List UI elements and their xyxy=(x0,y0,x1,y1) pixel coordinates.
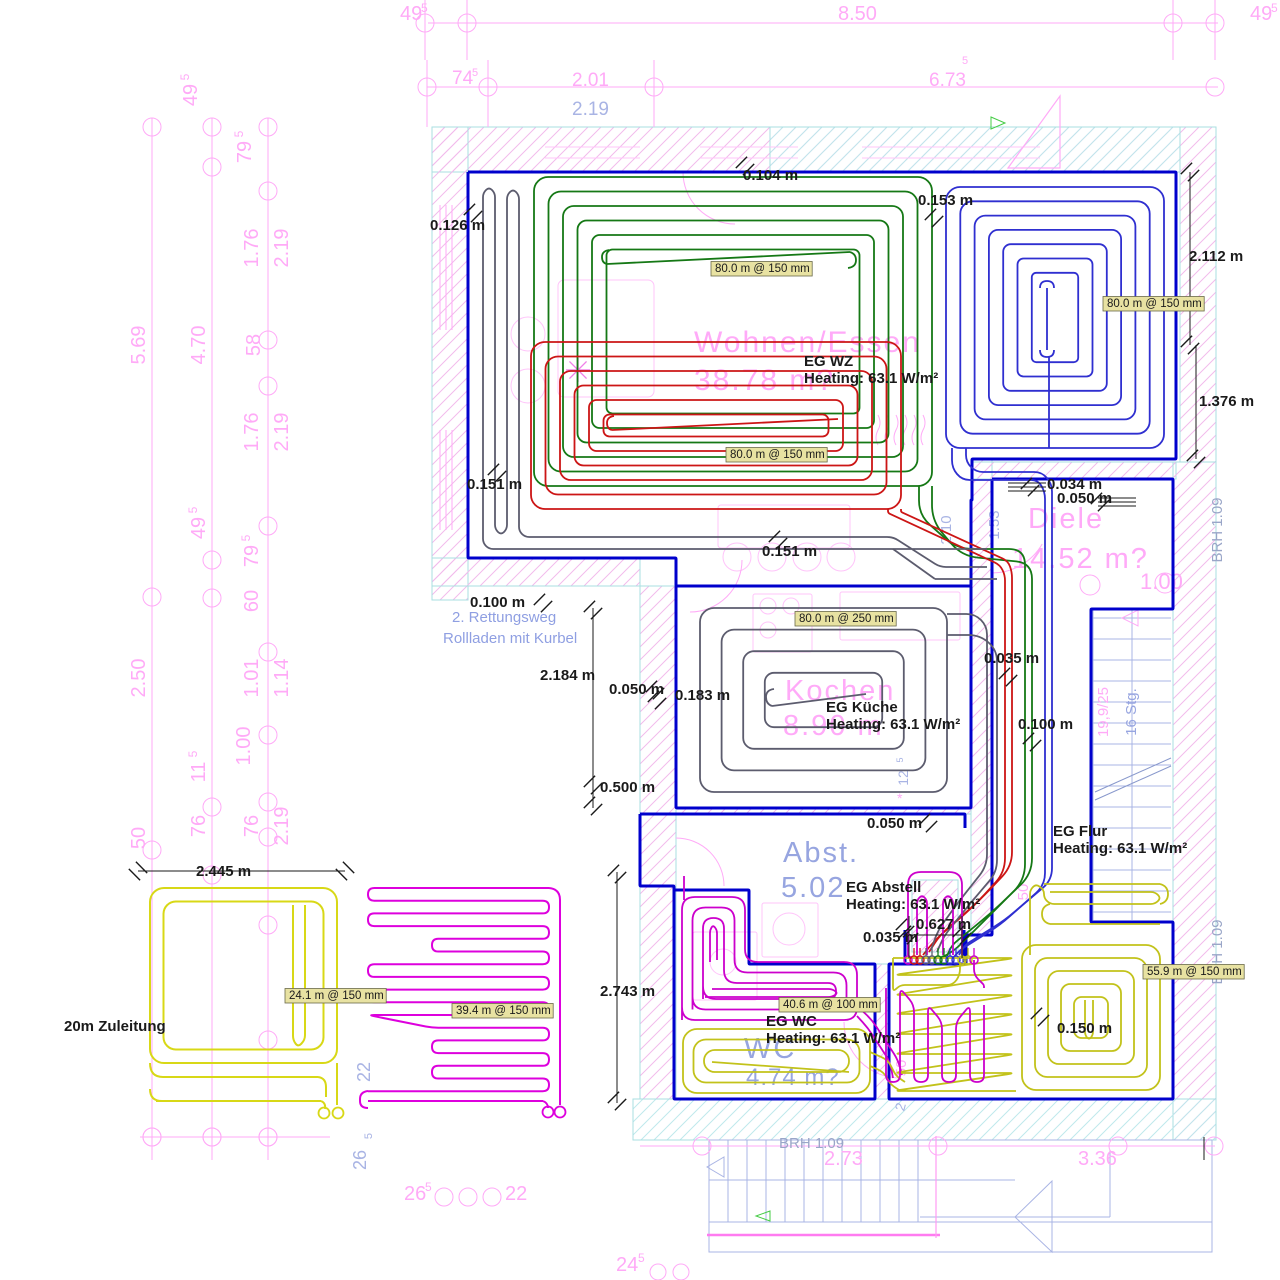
svg-text:0.500 m: 0.500 m xyxy=(600,779,655,796)
svg-text:0.100 m: 0.100 m xyxy=(470,594,525,611)
svg-text:5.02: 5.02 xyxy=(781,872,845,904)
svg-text:1.01: 1.01 xyxy=(241,659,263,698)
svg-text:26: 26 xyxy=(350,1150,370,1170)
svg-text:0.151 m: 0.151 m xyxy=(762,543,817,560)
svg-text:5: 5 xyxy=(421,1,428,15)
svg-text:49: 49 xyxy=(1250,3,1272,25)
svg-text:EG Flur: EG Flur xyxy=(1053,823,1107,840)
svg-text:80.0 m @ 250 mm: 80.0 m @ 250 mm xyxy=(799,613,894,625)
svg-text:39.4 m @ 150 mm: 39.4 m @ 150 mm xyxy=(456,1005,551,1017)
svg-text:0.126 m: 0.126 m xyxy=(430,217,485,234)
svg-text:58: 58 xyxy=(243,334,265,356)
svg-text:1.14: 1.14 xyxy=(271,659,293,698)
svg-text:80.0 m @ 150 mm: 80.0 m @ 150 mm xyxy=(1107,298,1202,310)
svg-text:49: 49 xyxy=(180,84,202,106)
svg-text:79: 79 xyxy=(241,545,263,567)
svg-text:1.376 m: 1.376 m xyxy=(1199,393,1254,410)
svg-text:22: 22 xyxy=(505,1183,527,1205)
svg-text:5: 5 xyxy=(232,130,246,137)
svg-text:14.52 m?: 14.52 m? xyxy=(1012,543,1149,575)
svg-text:1.00: 1.00 xyxy=(1140,569,1183,594)
svg-text:EG Abstell: EG Abstell xyxy=(846,879,921,896)
svg-text:2.19: 2.19 xyxy=(271,807,293,846)
svg-text:0.035 m: 0.035 m xyxy=(863,929,918,946)
svg-text:40.6 m @ 100 mm: 40.6 m @ 100 mm xyxy=(783,999,878,1011)
svg-text:0.150 m: 0.150 m xyxy=(1057,1020,1112,1037)
svg-text:60: 60 xyxy=(241,590,263,612)
svg-text:5: 5 xyxy=(638,1251,645,1265)
svg-text:0.151 m: 0.151 m xyxy=(467,476,522,493)
svg-text:2.19: 2.19 xyxy=(271,229,293,268)
svg-text:0.183 m: 0.183 m xyxy=(675,687,730,704)
svg-text:Heating: 63.1 W/m²: Heating: 63.1 W/m² xyxy=(766,1030,900,1047)
svg-text:8.50: 8.50 xyxy=(838,3,877,25)
svg-text:EG WC: EG WC xyxy=(766,1013,817,1030)
svg-text:19,9/25: 19,9/25 xyxy=(1095,687,1112,737)
svg-text:Abst.: Abst. xyxy=(783,837,859,869)
svg-text:24: 24 xyxy=(616,1254,638,1276)
svg-text:2.19: 2.19 xyxy=(271,413,293,452)
svg-text:2.50: 2.50 xyxy=(128,659,150,698)
svg-text:74: 74 xyxy=(452,68,474,89)
svg-text:1.00: 1.00 xyxy=(233,727,255,766)
svg-text:24.1 m @ 150 mm: 24.1 m @ 150 mm xyxy=(289,990,384,1002)
svg-text:EG Küche: EG Küche xyxy=(826,699,898,716)
svg-text:5: 5 xyxy=(962,55,968,67)
svg-text:5: 5 xyxy=(363,1133,375,1139)
svg-text:2.112 m: 2.112 m xyxy=(1189,248,1243,265)
svg-text:5: 5 xyxy=(186,506,200,513)
svg-text:Heating: 63.1 W/m²: Heating: 63.1 W/m² xyxy=(826,716,960,733)
svg-text:5: 5 xyxy=(239,534,253,541)
svg-text:79: 79 xyxy=(234,141,256,163)
svg-text:3.36: 3.36 xyxy=(1078,1148,1117,1170)
svg-text:80.0 m @ 150 mm: 80.0 m @ 150 mm xyxy=(715,263,810,275)
svg-text:11: 11 xyxy=(188,762,210,783)
svg-text:0.100 m: 0.100 m xyxy=(1018,716,1073,733)
svg-text:0.104 m: 0.104 m xyxy=(743,167,798,184)
svg-text:20m Zuleitung: 20m Zuleitung xyxy=(64,1018,166,1035)
svg-text:Diele: Diele xyxy=(1028,503,1104,535)
svg-text:0.153 m: 0.153 m xyxy=(918,192,973,209)
svg-text:0.050 m: 0.050 m xyxy=(867,815,922,832)
svg-text:2.743 m: 2.743 m xyxy=(600,983,655,1000)
svg-text:5: 5 xyxy=(425,1180,432,1194)
svg-text:50: 50 xyxy=(128,827,150,849)
svg-text:0.035 m: 0.035 m xyxy=(984,650,1039,667)
svg-text:Rollladen mit Kurbel: Rollladen mit Kurbel xyxy=(443,630,577,647)
svg-text:1.76: 1.76 xyxy=(241,413,263,452)
svg-text:5: 5 xyxy=(1271,1,1278,15)
svg-text:2.184 m: 2.184 m xyxy=(540,667,595,684)
svg-text:26: 26 xyxy=(404,1183,426,1205)
svg-text:6.73: 6.73 xyxy=(929,70,966,91)
svg-text:5: 5 xyxy=(178,73,192,80)
svg-text:4.70: 4.70 xyxy=(188,326,210,365)
svg-text:49: 49 xyxy=(400,3,422,25)
svg-text:80.0 m @ 150 mm: 80.0 m @ 150 mm xyxy=(730,449,825,461)
svg-text:Heating: 63.1 W/m²: Heating: 63.1 W/m² xyxy=(1053,840,1187,857)
svg-text:Heating: 63.1 W/m²: Heating: 63.1 W/m² xyxy=(804,370,938,387)
svg-text:49: 49 xyxy=(188,517,210,539)
svg-text:16 Stg.: 16 Stg. xyxy=(1123,688,1140,736)
svg-text:12: 12 xyxy=(895,770,911,786)
svg-text:76: 76 xyxy=(188,815,210,837)
svg-text:5: 5 xyxy=(186,750,200,757)
svg-text:1.76: 1.76 xyxy=(241,229,263,268)
svg-text:BRH 1.09: BRH 1.09 xyxy=(1209,497,1226,562)
svg-text:2.01: 2.01 xyxy=(572,70,609,91)
svg-text:55.9 m @ 150 mm: 55.9 m @ 150 mm xyxy=(1147,966,1242,978)
svg-text:5: 5 xyxy=(472,67,478,79)
svg-text:5.69: 5.69 xyxy=(128,326,150,365)
svg-text:EG WZ: EG WZ xyxy=(804,353,853,370)
svg-text:76: 76 xyxy=(241,815,263,837)
svg-text:BRH 1.09: BRH 1.09 xyxy=(779,1135,844,1152)
svg-text:2.19: 2.19 xyxy=(572,99,609,120)
svg-text:5: 5 xyxy=(895,757,905,762)
svg-text:22: 22 xyxy=(354,1062,374,1082)
svg-text:0.627 m: 0.627 m xyxy=(916,916,971,933)
svg-text:1.53: 1.53 xyxy=(986,510,1003,539)
svg-text:Heating: 63.1 W/m²: Heating: 63.1 W/m² xyxy=(846,896,980,913)
